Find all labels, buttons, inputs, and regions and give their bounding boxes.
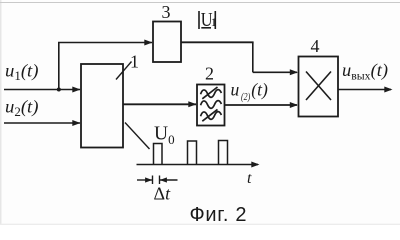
arrowhead u2 into block 1 [72,120,80,126]
multiplier X diagonal 2 [306,72,331,101]
svg-text:4: 4 [311,36,320,56]
wire u1 input horizontal [4,89,80,91]
block 2 filter [197,85,225,126]
svg-text:3: 3 [162,2,171,22]
filter wave middle [201,101,222,109]
block 1 [81,64,123,148]
wire block 2 output to block 4 [225,104,298,106]
svg-text:uвых(t): uвых(t) [342,60,388,83]
scan top edge line [0,2,400,4]
pulse 1 [154,144,163,165]
label |U1| underline [201,27,211,29]
timing axis baseline [137,164,259,166]
node junction dot [57,88,61,92]
wire u2 input horizontal [4,122,80,124]
multiplier X diagonal 1 [306,72,331,101]
svg-text:2: 2 [205,64,214,84]
svg-text:u1(t): u1(t) [5,61,39,84]
delta-t tick right [159,176,161,185]
scan bottom edge tint [0,223,400,225]
svg-text:t: t [247,170,252,187]
block 3 [153,22,181,63]
leader line to label 1 [116,62,132,80]
svg-text:Фиг. 2: Фиг. 2 [190,204,248,225]
wire block 4 output [338,89,391,91]
arrowhead into block 4 top [290,69,298,75]
filter wave bottom slash [202,109,217,121]
pulse 2 [188,141,197,165]
block 4 multiplier [299,57,339,117]
svg-text:u: u [231,80,240,100]
delta-t tick left [152,176,154,185]
label |U1| left bar [198,11,200,29]
arrowhead into block 4 bottom [290,102,298,108]
svg-text:(2): (2) [241,92,251,103]
wire block 3 output vertical down [252,42,254,72]
arrowhead into block 2 [188,101,196,107]
arrowhead u1 into block 1 [72,87,80,93]
scan left edge tint [0,0,2,225]
arrowhead into block 3 [144,40,152,46]
pulse 3 [219,141,228,165]
arrowhead timing axis [251,162,259,168]
delta-t arrowhead left-pointing [160,177,167,182]
svg-text:u2(t): u2(t) [5,97,39,120]
delta-t arrowhead right-pointing [145,177,152,182]
label |U1| right bar [214,11,216,29]
wire block 1 output to block 2 [123,103,196,105]
delta-t dimension left line [137,179,152,181]
wire branch horizontal to block 3 [58,42,152,44]
wire into block 4 top input [253,71,297,73]
filter wave top slash [202,87,217,99]
arrowhead output end [384,87,392,93]
leader line block 1 to timing pulse [125,123,150,150]
svg-text:Δt: Δt [154,184,172,204]
wire branch vertical to block 3 [58,43,60,90]
filter wave top [201,90,222,98]
filter wave bottom [201,112,222,120]
delta-t dimension right line [160,179,178,181]
svg-text:(t): (t) [251,80,268,100]
wire block 3 output horizontal [181,41,254,43]
svg-text:1: 1 [130,52,139,72]
